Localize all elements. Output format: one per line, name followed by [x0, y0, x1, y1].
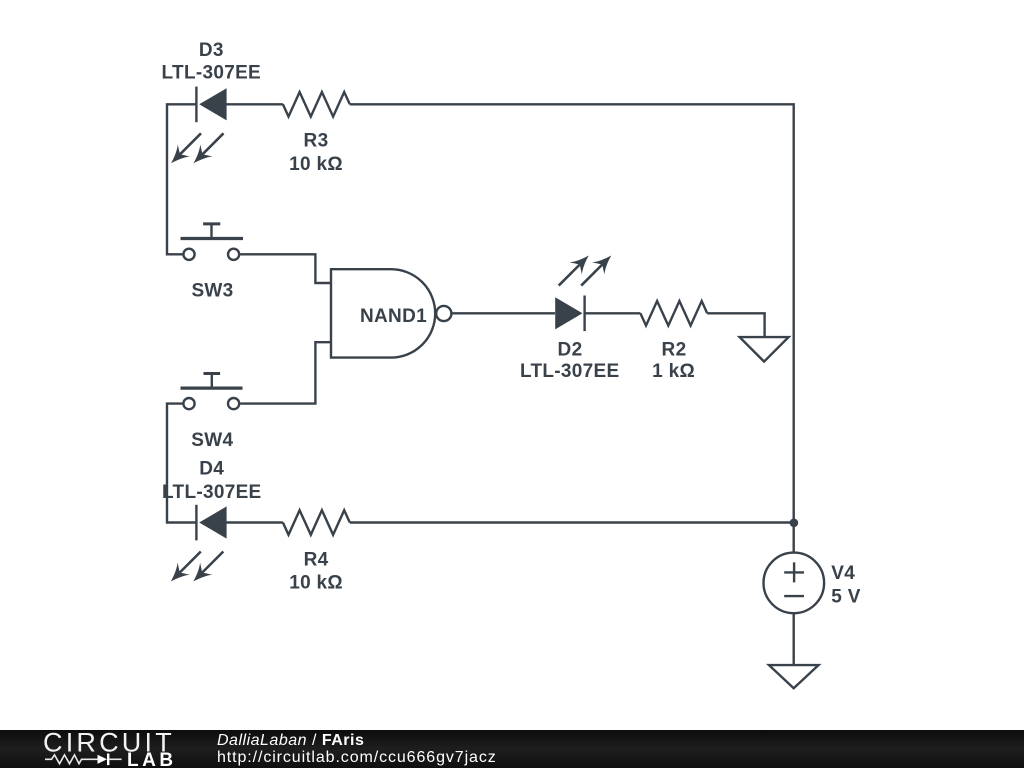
- wire: D4 to R4: [227, 521, 283, 523]
- svg-text:10 kΩ: 10 kΩ: [289, 154, 343, 175]
- pushbutton SW4: [181, 374, 243, 410]
- resistor R2: [640, 301, 707, 326]
- LED D2: [553, 249, 618, 331]
- svg-text:1 kΩ: 1 kΩ: [652, 361, 695, 382]
- ground (R2): [740, 337, 789, 362]
- svg-text:D4: D4: [199, 458, 224, 479]
- wire: D3 to R3: [227, 103, 283, 105]
- svg-text:R4: R4: [304, 549, 329, 570]
- svg-text:SW4: SW4: [191, 430, 233, 451]
- LED D3: [165, 87, 230, 170]
- wire: R3 along top rail, down right rail to junction: [350, 104, 794, 522]
- pushbutton SW3: [181, 224, 244, 260]
- wire: NAND1 output to D2 anode: [452, 312, 556, 314]
- wire: D3 anode to top-left corner, down left rail to SW3 left terminal: [167, 104, 196, 254]
- svg-text:5 V: 5 V: [831, 587, 860, 608]
- svg-text:10 kΩ: 10 kΩ: [289, 572, 343, 593]
- footer bar: [0, 730, 1024, 768]
- resistor R4: [283, 510, 350, 535]
- ground (V4): [769, 665, 819, 688]
- CircuitLab logo: [0, 730, 220, 768]
- wire: V4 minus terminal to ground: [793, 613, 795, 665]
- svg-text:SW3: SW3: [191, 281, 233, 302]
- NAND gate NAND1: [331, 269, 451, 357]
- svg-text:V4: V4: [831, 563, 855, 584]
- wire: D2 cathode to R2: [585, 312, 641, 314]
- svg-text:LTL-307EE: LTL-307EE: [162, 62, 261, 83]
- svg-text:D3: D3: [199, 40, 224, 61]
- wire: R4 along bottom rail to junction: [350, 521, 794, 523]
- svg-text:D2: D2: [558, 340, 583, 361]
- wire: SW3 right terminal to NAND1 input A: [240, 254, 331, 283]
- resistor R3: [283, 92, 350, 117]
- svg-text:R3: R3: [304, 131, 329, 152]
- LED D4: [165, 505, 230, 588]
- svg-text:R2: R2: [662, 340, 687, 361]
- svg-text:LTL-307EE: LTL-307EE: [520, 361, 619, 382]
- wire: junction to V4 plus terminal: [793, 523, 795, 553]
- footer credit text: [217, 732, 497, 767]
- wire: R2 to ground: [707, 313, 764, 337]
- svg-text:LTL-307EE: LTL-307EE: [162, 482, 261, 503]
- svg-text:NAND1: NAND1: [360, 306, 427, 327]
- svg-text:LAB: LAB: [127, 749, 177, 767]
- wire: SW4 left terminal down left rail to D4 cathode: [167, 404, 196, 523]
- voltage source V4: [764, 553, 825, 614]
- junction node: [790, 519, 799, 528]
- wire: SW4 right terminal to NAND1 input B: [240, 342, 331, 403]
